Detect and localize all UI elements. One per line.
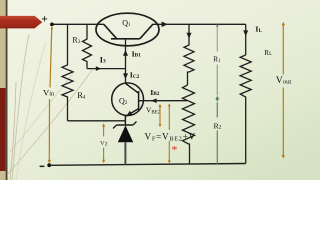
Vin measurement arrow bbox=[49, 27, 52, 162]
transistor Q1 bbox=[96, 13, 159, 46]
red bullet arrow bbox=[0, 16, 42, 29]
current arrow IL bbox=[243, 30, 248, 36]
resistor R1 branch and body bbox=[184, 24, 194, 85]
divider mid arrows bbox=[216, 96, 220, 100]
left sidebar dark line bbox=[6, 0, 8, 180]
current arrow IC2 bbox=[123, 73, 128, 79]
node input - bbox=[47, 163, 51, 167]
wire R4 to zener junction bbox=[68, 120, 126, 122]
VBE2 measurement arrow bbox=[159, 105, 161, 126]
svg-text:*: * bbox=[171, 142, 177, 156]
VZ measurement arrow bbox=[103, 125, 105, 162]
wire Q2 base to divider bbox=[139, 100, 187, 102]
node input + bbox=[50, 23, 54, 27]
left sidebar tan strip bbox=[0, 0, 6, 180]
current arrow into R1 bbox=[187, 33, 192, 39]
VF measurement arrow bbox=[168, 105, 170, 163]
resistor R2 body bbox=[183, 85, 195, 164]
svg-text:+: + bbox=[41, 13, 48, 25]
divider junction tick at rail bbox=[216, 25, 218, 27]
wire top rail left bbox=[52, 23, 104, 25]
wire Q1 base to Q2 collector bbox=[125, 40, 127, 84]
transistor Q2 bbox=[112, 83, 144, 121]
resistor R3 body bbox=[83, 24, 92, 68]
wire I3 horizontal bbox=[87, 68, 126, 70]
Q1 emitter current arrow bbox=[162, 22, 168, 28]
wire zener to ground rail bbox=[124, 142, 126, 165]
left sidebar maroon strip bbox=[0, 88, 6, 171]
resistor RL body bbox=[240, 55, 251, 164]
decorative swoosh curves bbox=[8, 34, 92, 180]
current arrow I3 bbox=[96, 66, 101, 71]
current arrow IB2 bbox=[151, 98, 157, 103]
Q2 emitter arrow bbox=[127, 111, 133, 116]
wire RL branch bbox=[245, 24, 247, 55]
bottom rail bbox=[49, 164, 246, 166]
current arrow IB1 bbox=[123, 50, 128, 56]
wire top rail right bbox=[153, 23, 246, 25]
slide background bbox=[0, 0, 320, 180]
zener diode DZ bbox=[113, 121, 137, 143]
Vout measurement arrow bbox=[282, 24, 284, 158]
resistor R4 body bbox=[62, 24, 73, 121]
divider measurement line teal bbox=[216, 25, 218, 164]
minus terminal bbox=[40, 166, 45, 168]
